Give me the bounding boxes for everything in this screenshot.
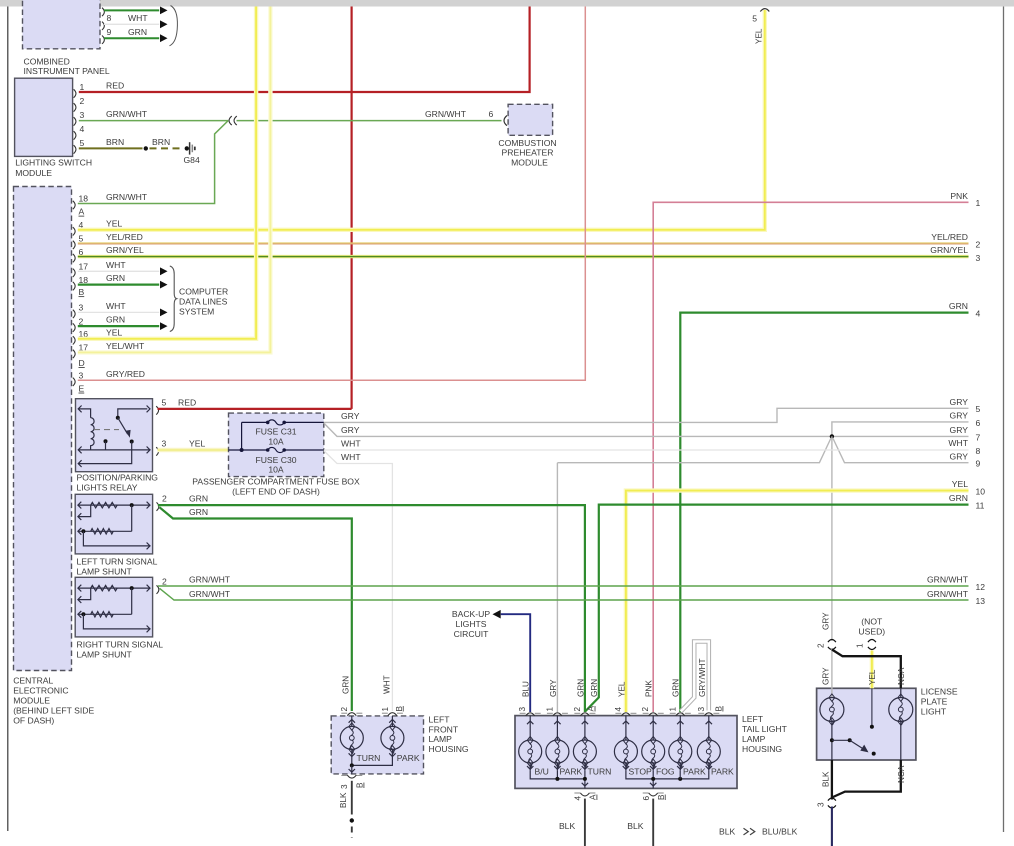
svg-text:(LEFT END OF DASH): (LEFT END OF DASH) [232, 487, 320, 497]
svg-text:4: 4 [574, 796, 583, 801]
wire GRN right edge 11 to tail turn pin A [585, 505, 968, 712]
svg-text:PARK: PARK [683, 767, 706, 777]
svg-text:OF DASH): OF DASH) [13, 716, 54, 726]
combustion preheater module (box) [508, 104, 552, 135]
svg-text:GRY: GRY [950, 411, 969, 421]
svg-text:PARK: PARK [711, 767, 734, 777]
svg-text:WHT: WHT [341, 452, 361, 462]
svg-text:B: B [356, 782, 365, 788]
svg-text:PREHEATER: PREHEATER [502, 148, 554, 158]
svg-text:GRN/WHT: GRN/WHT [106, 109, 148, 119]
svg-text:18: 18 [79, 275, 89, 285]
svg-text:E: E [79, 384, 85, 394]
GRY junction [830, 434, 834, 438]
svg-text:LAMP: LAMP [742, 734, 766, 744]
svg-text:9: 9 [976, 459, 981, 469]
svg-text:GRN: GRN [189, 507, 208, 517]
tail light TURN bulb [574, 712, 580, 714]
svg-text:GRN/WHT: GRN/WHT [927, 589, 969, 599]
svg-text:9: 9 [107, 27, 112, 37]
wire YEL relay pin3 to fuse box [158, 448, 229, 453]
ground G84 [185, 146, 189, 150]
svg-text:GRN: GRN [106, 315, 125, 325]
right border line [1003, 7, 1005, 833]
svg-text:FRONT: FRONT [429, 724, 459, 734]
svg-text:10A: 10A [268, 436, 284, 446]
svg-text:GRY: GRY [950, 425, 969, 435]
svg-text:BLU: BLU [522, 681, 531, 697]
svg-text:(BEHIND LEFT SIDE: (BEHIND LEFT SIDE [13, 706, 94, 716]
svg-text:10A: 10A [268, 465, 284, 475]
central module pin 18 [73, 201, 75, 209]
wire GRN right edge 4 down to tail light park [680, 313, 968, 712]
svg-text:10: 10 [976, 487, 986, 497]
svg-text:7: 7 [976, 432, 981, 442]
front lamp top pin arcs [341, 712, 347, 714]
lighting switch pin 5 [74, 145, 76, 153]
wire YEL license (not used) [870, 651, 874, 689]
left tail light lamp housing (box) [515, 716, 737, 789]
lighting switch pin 2 [74, 103, 76, 111]
svg-text:GRY: GRY [341, 425, 360, 435]
svg-text:PASSENGER COMPARTMENT FUSE BOX: PASSENGER COMPARTMENT FUSE BOX [192, 477, 360, 487]
fuse C30 [229, 449, 268, 451]
svg-text:YEL: YEL [189, 439, 205, 449]
svg-text:BLU/BLK: BLU/BLK [762, 827, 798, 837]
svg-text:YEL: YEL [868, 669, 877, 685]
svg-text:2: 2 [79, 316, 84, 326]
central module pin 16 [73, 336, 75, 344]
wire RED vertical from top to parking relay pin5 [351, 7, 353, 409]
relay coil dashed link [94, 429, 119, 431]
svg-text:GRN/YEL: GRN/YEL [930, 245, 968, 255]
svg-text:INSTRUMENT PANEL: INSTRUMENT PANEL [24, 66, 110, 76]
svg-text:1: 1 [545, 707, 554, 712]
wire BLK license left bulb down [831, 760, 833, 800]
svg-text:(NOT: (NOT [861, 617, 883, 627]
svg-text:GRN: GRN [128, 27, 147, 37]
svg-text:MODULE: MODULE [511, 157, 548, 167]
svg-text:GRN: GRN [949, 493, 968, 503]
svg-text:3: 3 [518, 707, 527, 712]
svg-text:WHT: WHT [128, 13, 148, 23]
relay pin 3 [156, 447, 158, 455]
central electronic module (box) [14, 187, 72, 671]
svg-text:3: 3 [817, 802, 826, 807]
wire BRN pin5 with splice [79, 147, 143, 149]
connector 2 on GRY wire [828, 640, 836, 643]
svg-text:GRN: GRN [672, 679, 681, 697]
svg-text:ELECTRONIC: ELECTRONIC [13, 686, 68, 696]
svg-text:2: 2 [573, 707, 582, 712]
svg-text:MODULE: MODULE [15, 168, 52, 178]
svg-text:PLATE: PLATE [921, 696, 948, 706]
right turn signal lamp shunt internals [78, 587, 150, 589]
svg-text:COMPUTER: COMPUTER [179, 286, 228, 296]
svg-text:LIGHT: LIGHT [921, 706, 947, 716]
wire GRY/RED pin3 up to top edge [78, 7, 586, 381]
top grey bar [0, 0, 1014, 7]
svg-text:LEFT TURN SIGNAL: LEFT TURN SIGNAL [77, 556, 158, 566]
lighting switch pin 1 [74, 89, 76, 97]
svg-text:GRN/WHT: GRN/WHT [189, 575, 231, 585]
svg-text:LAMP: LAMP [429, 734, 453, 744]
tail light PARK bulb [547, 712, 553, 714]
fuse C31 [242, 421, 268, 423]
svg-text:5: 5 [80, 138, 85, 148]
front lamp bottom bus [351, 749, 353, 765]
svg-text:B/U: B/U [535, 767, 549, 777]
svg-text:BLK: BLK [559, 821, 576, 831]
svg-text:USED): USED) [858, 626, 885, 636]
svg-text:3: 3 [697, 707, 706, 712]
wire YEL pin16 up to top edge [78, 7, 256, 339]
svg-text:A: A [589, 794, 598, 800]
lighting switch module (box) [15, 78, 73, 156]
lighting switch pin 4 [74, 131, 76, 139]
wire GRN shunt to tail turn pin2 [158, 505, 585, 712]
svg-text:GRN: GRN [106, 273, 125, 283]
svg-text:GRN: GRN [576, 679, 585, 697]
svg-text:HOUSING: HOUSING [742, 744, 782, 754]
tail light STOP bulb [615, 712, 621, 714]
central module pin 18 [73, 282, 75, 290]
wire GRY diagonal branches to row 9 [557, 438, 831, 463]
lighting switch pin 3 [74, 117, 76, 125]
relay bottom row [79, 442, 132, 464]
svg-text:YEL/RED: YEL/RED [106, 232, 143, 242]
svg-text:FOG: FOG [656, 767, 675, 777]
wire NCA black top path [832, 650, 901, 689]
svg-text:1: 1 [976, 198, 981, 208]
svg-text:SYSTEM: SYSTEM [179, 306, 214, 316]
right turn signal lamp shunt (box) [75, 577, 152, 637]
front lamp TURN bulb [351, 716, 353, 727]
svg-text:1: 1 [80, 82, 85, 92]
svg-text:2: 2 [641, 707, 650, 712]
wire BLU to tail b/u [501, 614, 531, 712]
svg-text:2: 2 [976, 239, 981, 249]
wire PNK right edge 1 down to tail light fog [653, 202, 968, 712]
svg-text:GRN: GRN [590, 679, 599, 697]
svg-text:GRN: GRN [189, 494, 208, 504]
svg-text:3: 3 [79, 371, 84, 381]
svg-text:LIGHTS: LIGHTS [455, 619, 486, 629]
wire GRN/WHT branch down to central module pin18 [78, 121, 228, 204]
left border line [7, 7, 9, 832]
svg-text:6: 6 [489, 109, 494, 119]
relay switch [118, 409, 148, 418]
svg-text:5: 5 [976, 404, 981, 414]
svg-text:6: 6 [976, 418, 981, 428]
svg-text:RED: RED [178, 398, 196, 408]
arrow to back-up circuit [493, 610, 501, 619]
svg-text:YEL: YEL [952, 479, 968, 489]
left turn signal lamp shunt internals [78, 504, 150, 506]
wire YEL/RED pin5 to right edge 2 [78, 242, 969, 244]
svg-text:B: B [79, 287, 85, 297]
svg-text:4: 4 [80, 124, 85, 134]
relay internals: top line & coil [79, 409, 91, 418]
svg-text:GRY/WHT: GRY/WHT [698, 658, 707, 697]
svg-text:PNK: PNK [950, 191, 968, 201]
svg-text:A: A [79, 207, 85, 217]
combined panel pin 8 wire WHT [102, 22, 104, 30]
svg-text:B: B [715, 706, 724, 712]
svg-text:PARK: PARK [560, 767, 583, 777]
svg-text:3: 3 [79, 303, 84, 313]
central module pin 3 [73, 378, 75, 386]
svg-text:17: 17 [79, 262, 89, 272]
svg-text:GRY/RED: GRY/RED [106, 369, 145, 379]
tail light B/U bulb [520, 712, 526, 714]
svg-text:13: 13 [976, 596, 986, 606]
svg-text:COMBUSTION: COMBUSTION [498, 138, 556, 148]
computer data lines brace [170, 266, 177, 332]
svg-text:6: 6 [642, 796, 651, 801]
svg-text:1: 1 [381, 707, 390, 712]
svg-text:FUSE C31: FUSE C31 [255, 427, 296, 437]
svg-text:PARK: PARK [397, 753, 420, 763]
relay pin 5 [156, 406, 158, 414]
tail right bus [626, 770, 709, 779]
svg-text:4: 4 [976, 309, 981, 319]
svg-text:B: B [395, 706, 404, 712]
svg-text:YEL/RED: YEL/RED [931, 232, 968, 242]
tail light PARK bulb [670, 712, 676, 714]
svg-text:TAIL LIGHT: TAIL LIGHT [742, 724, 788, 734]
svg-text:WHT: WHT [106, 301, 126, 311]
connector ( at combustion preheater [504, 116, 507, 126]
svg-text:FUSE C30: FUSE C30 [255, 455, 296, 465]
svg-text:GRY: GRY [549, 679, 558, 697]
wire GRY fuse C31 second to GRY 7 [324, 423, 969, 436]
svg-text:BLK: BLK [339, 792, 348, 808]
yel terminal inside box [871, 688, 873, 727]
svg-text:5: 5 [752, 14, 757, 24]
svg-text:BRN: BRN [106, 137, 124, 147]
svg-text:D: D [79, 358, 85, 368]
svg-text:3: 3 [976, 253, 981, 263]
wire YEL/WHT pin17 up to top edge [78, 7, 271, 353]
svg-text:BLK: BLK [627, 821, 644, 831]
central module pin 3 [73, 310, 75, 318]
svg-text:8: 8 [976, 446, 981, 456]
wire BLK tail pin4 [584, 799, 586, 846]
data line wire WHT [78, 270, 159, 272]
central module pin 17 [73, 269, 75, 277]
svg-text:2: 2 [80, 96, 85, 106]
data line wire WHT [78, 311, 159, 313]
passenger compartment fuse box (box) [229, 413, 324, 477]
svg-text:YEL/WHT: YEL/WHT [106, 341, 145, 351]
wire YEL pin4: central module to top connector 5 [78, 10, 765, 230]
wire GRY fuse C31 to right edge 5 (with jog) [324, 408, 969, 422]
wire GRN/WHT right edge 12 [158, 585, 969, 587]
svg-text:YEL: YEL [755, 28, 764, 44]
svg-text:BLK: BLK [822, 771, 831, 787]
wire RED relay pin5 from red vertical [158, 408, 352, 410]
svg-text:G84: G84 [184, 155, 200, 165]
svg-text:TURN: TURN [588, 767, 612, 777]
svg-text:11: 11 [976, 501, 985, 511]
svg-text:WHT: WHT [106, 260, 126, 270]
svg-text:GRN/YEL: GRN/YEL [106, 245, 144, 255]
svg-text:GRN/WHT: GRN/WHT [106, 192, 148, 202]
relay mid row (pin 3) [79, 449, 151, 451]
license right bulb [900, 688, 902, 697]
tail GRY/WHT jumper pin1 to pin3 [681, 642, 709, 712]
svg-text:GRN/WHT: GRN/WHT [927, 575, 969, 585]
combined panel pin 9 wire GRN [102, 36, 104, 44]
svg-text:5: 5 [162, 397, 167, 407]
svg-text:RED: RED [106, 81, 124, 91]
front lamp bottom pin [341, 774, 347, 776]
wire GRY down to license plate light [831, 436, 833, 641]
svg-text:GRN/WHT: GRN/WHT [189, 589, 231, 599]
svg-text:GRY: GRY [950, 397, 969, 407]
svg-text:1: 1 [668, 707, 677, 712]
wire GRY down to tail light park pin1 [556, 463, 558, 712]
svg-text:BLK: BLK [719, 827, 736, 837]
svg-text:TURN: TURN [357, 753, 381, 763]
tail left bus [530, 770, 585, 779]
left turn signal lamp shunt (box) [75, 494, 152, 554]
svg-text:STOP: STOP [629, 767, 653, 777]
svg-text:GRN/WHT: GRN/WHT [425, 109, 467, 119]
svg-text:RIGHT TURN SIGNAL: RIGHT TURN SIGNAL [77, 640, 164, 650]
svg-text:LIGHTING SWITCH: LIGHTING SWITCH [15, 158, 92, 168]
central module pin 6 [73, 254, 75, 262]
connector 1 not used [868, 640, 876, 643]
wire BLK tail pin6 [652, 799, 654, 846]
tail light FOG bulb [643, 712, 649, 714]
svg-text:2: 2 [162, 577, 167, 587]
svg-text:WHT: WHT [341, 439, 361, 449]
license right bulb bottom NCA path [900, 722, 902, 760]
wire BLK from front lamp [351, 781, 353, 815]
svg-text:WHT: WHT [382, 675, 391, 694]
svg-text:CIRCUIT: CIRCUIT [454, 629, 490, 639]
wire BLU/BLK down to bottom [831, 807, 833, 846]
svg-text:LAMP SHUNT: LAMP SHUNT [77, 650, 133, 660]
svg-text:YEL: YEL [106, 327, 122, 337]
fuse box junction [240, 448, 244, 452]
svg-text:B: B [657, 794, 666, 800]
svg-text:4: 4 [614, 707, 623, 712]
svg-text:GRN: GRN [341, 676, 350, 694]
central module pin 2 [73, 323, 75, 331]
svg-text:3: 3 [340, 784, 349, 789]
svg-text:WHT: WHT [948, 438, 968, 448]
svg-text:LICENSE: LICENSE [921, 687, 958, 697]
svg-text:YEL: YEL [106, 218, 122, 228]
data line wire GRN [78, 325, 159, 327]
left shunt pin 2 [157, 502, 159, 510]
svg-text:3: 3 [80, 110, 85, 120]
svg-text:BACK-UP: BACK-UP [452, 609, 490, 619]
splice connector on GRN/WHT [229, 116, 232, 125]
svg-text:2: 2 [340, 707, 349, 712]
svg-text:GRY: GRY [822, 612, 831, 630]
wire GRN/WHT continues to combustion preheater [237, 120, 502, 122]
central module pin 5 [73, 241, 75, 249]
svg-text:GRY: GRY [950, 451, 969, 461]
wire GRY into license box [831, 648, 833, 697]
svg-text:GRY: GRY [822, 667, 831, 685]
license left bulb [820, 698, 844, 722]
right shunt pin 2 [157, 585, 159, 593]
connector 3 [828, 798, 836, 801]
svg-text:BRN: BRN [152, 137, 170, 147]
svg-text:8: 8 [107, 13, 112, 23]
svg-text:2: 2 [162, 494, 167, 504]
wire YEL right edge 10 down to tail stop [626, 491, 969, 712]
combined instrument panel (box) [23, 0, 101, 49]
svg-text:3: 3 [162, 438, 167, 448]
wire GRN/WHT pin3 lighting switch [79, 120, 228, 122]
license plate light (box) [817, 688, 916, 760]
top connector arc for YEL [760, 9, 769, 12]
wire GRN/WHT right edge 13 [160, 588, 969, 600]
wire RED pin1: lighting switch to top edge [79, 7, 530, 93]
position/parking lights relay (box) [76, 399, 153, 472]
wire GRY branch up right edge 6 [832, 422, 969, 437]
svg-text:GRN: GRN [949, 301, 968, 311]
svg-text:LEFT: LEFT [429, 715, 451, 725]
svg-text:5: 5 [79, 234, 84, 244]
svg-text:DATA LINES: DATA LINES [179, 296, 228, 306]
wire GRN/YEL pin6 to right edge 3 [78, 255, 969, 258]
data line wire GRN [78, 284, 159, 286]
central module pin 17 [73, 350, 75, 358]
svg-text:HOUSING: HOUSING [429, 744, 469, 754]
svg-text:GRY: GRY [341, 411, 360, 421]
svg-text:NCA: NCA [897, 765, 906, 783]
svg-text:YEL: YEL [617, 681, 626, 697]
svg-text:1: 1 [856, 643, 865, 648]
svg-text:MODULE: MODULE [13, 696, 50, 706]
license switch [831, 722, 833, 760]
tail light PARK bulb [698, 712, 704, 714]
svg-text:PNK: PNK [645, 680, 654, 697]
wire WHT fuse C30 to right edge 8 [324, 449, 969, 451]
svg-text:18: 18 [79, 194, 89, 204]
svg-text:LAMP SHUNT: LAMP SHUNT [77, 566, 133, 576]
svg-text:2: 2 [817, 643, 826, 648]
left front lamp housing (box) [331, 716, 423, 774]
central module pin 4 [73, 227, 75, 235]
svg-text:LIGHTS RELAY: LIGHTS RELAY [77, 482, 138, 492]
svg-text:12: 12 [976, 582, 986, 592]
tail bottom pin 6/B [643, 792, 649, 794]
svg-text:A: A [587, 706, 596, 712]
svg-text:COMBINED: COMBINED [24, 56, 70, 66]
svg-text:NCA: NCA [897, 667, 906, 685]
svg-text:LEFT: LEFT [742, 714, 764, 724]
combined panel pin 7 wire GRN [102, 8, 104, 16]
wire GRN shunt branch to front lamp turn [160, 507, 352, 711]
tail bottom pin 4/A [574, 792, 580, 794]
front lamp PARK bulb [391, 716, 393, 727]
svg-text:CENTRAL: CENTRAL [13, 676, 53, 686]
wire WHT fuse C30 branch down to front lamp park [324, 451, 393, 711]
combined panel bracket [170, 6, 178, 46]
svg-text:POSITION/PARKING: POSITION/PARKING [77, 472, 159, 482]
